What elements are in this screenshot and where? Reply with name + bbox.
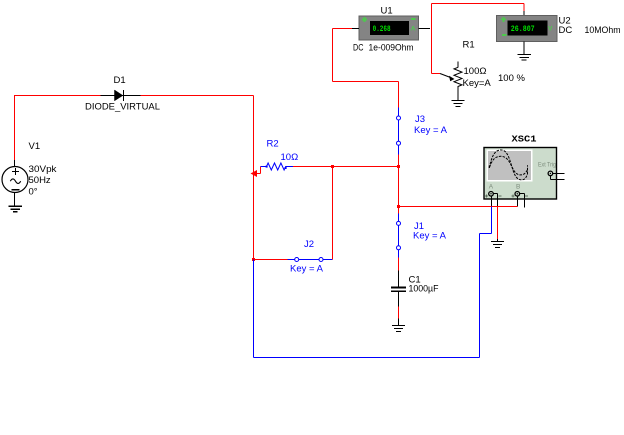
wire C1 to ground bbox=[398, 307, 400, 319]
wire scope A- down to ground bbox=[497, 207, 499, 240]
ground for V1 bbox=[9, 193, 23, 212]
R2 value label bbox=[281, 152, 299, 163]
V1 label bbox=[29, 141, 41, 152]
svg-text:1000µF: 1000µF bbox=[409, 284, 439, 295]
wire U1 right to top net and U2 bbox=[432, 4, 525, 29]
R1 value labels bbox=[463, 66, 526, 89]
svg-text:50Hz: 50Hz bbox=[29, 175, 51, 186]
wire scope A terminal hook to ground branch bbox=[493, 194, 498, 207]
svg-text:V: V bbox=[548, 25, 553, 32]
switch J1 bbox=[397, 214, 401, 258]
C1 label bbox=[409, 275, 421, 286]
potentiometer R1 bbox=[440, 62, 462, 101]
svg-text:D1: D1 bbox=[114, 75, 126, 86]
svg-text:B: B bbox=[516, 184, 520, 191]
D1 value label bbox=[85, 102, 160, 113]
multimeter U2 bbox=[497, 16, 558, 42]
wire middle column from R2 junction down to output junction bbox=[398, 167, 400, 215]
wire R2 left jog bbox=[254, 167, 261, 174]
U2 value label bbox=[559, 25, 621, 36]
svg-text:R1: R1 bbox=[463, 40, 475, 51]
J1 label bbox=[414, 221, 424, 232]
svg-text:Key = A: Key = A bbox=[414, 125, 448, 136]
ground for R1 bbox=[452, 101, 465, 107]
junction at output node bbox=[397, 205, 400, 208]
junction at J2 left / blue net bbox=[252, 258, 255, 261]
ground for scope bbox=[491, 239, 504, 248]
svg-text:0.268: 0.268 bbox=[373, 24, 391, 34]
wire U2 bottom pin to ground bbox=[523, 42, 525, 55]
svg-text:J2: J2 bbox=[304, 239, 314, 250]
C1 value label bbox=[409, 284, 439, 295]
wire Ext Trig stubs bbox=[551, 174, 565, 180]
J3 label bbox=[415, 114, 425, 125]
svg-text:Key = A: Key = A bbox=[290, 264, 324, 275]
J2 key label bbox=[290, 264, 324, 275]
capacitor C1 bbox=[391, 271, 406, 307]
J1 key label bbox=[413, 231, 447, 242]
U1 label bbox=[381, 6, 393, 17]
svg-text:A: A bbox=[411, 26, 416, 33]
svg-text:XSC1: XSC1 bbox=[512, 134, 537, 145]
resistor R2 bbox=[261, 163, 294, 170]
svg-text:10Ω: 10Ω bbox=[281, 152, 299, 163]
svg-text:0°: 0° bbox=[29, 187, 38, 198]
wire scope B terminal down stub bbox=[517, 196, 519, 207]
wire arrow at R2 tap on left column bbox=[251, 170, 258, 177]
wire blue net: scope A+ down, around to J2 junction bbox=[254, 207, 492, 358]
wire top horizontal net from V1 to right column bbox=[15, 95, 254, 97]
J3 key label bbox=[414, 125, 448, 136]
wire U2 top pin stub bbox=[523, 11, 525, 16]
diode D1 bbox=[101, 90, 141, 101]
wire J1 bottom to C1 bbox=[398, 258, 400, 271]
junction at middle column and R2 wire bbox=[397, 165, 400, 168]
U2 label bbox=[559, 16, 571, 27]
voltage source V1 bbox=[2, 167, 28, 193]
V1 value labels bbox=[29, 164, 57, 198]
J2 label bbox=[304, 239, 314, 250]
switch J2 bbox=[254, 258, 333, 262]
svg-text:J3: J3 bbox=[415, 114, 425, 125]
wire scope B terminal hook stub bbox=[520, 194, 525, 208]
svg-text:1e-009Ohm: 1e-009Ohm bbox=[369, 43, 414, 54]
XSC1 label bbox=[512, 134, 537, 145]
svg-text:A: A bbox=[489, 184, 494, 191]
U1 value label bbox=[353, 43, 414, 54]
wire from J2 right up to R2 net bbox=[332, 167, 334, 260]
wire left vertical from top wire down to V1 bbox=[14, 95, 16, 167]
svg-text:26.807: 26.807 bbox=[511, 24, 535, 34]
wire from U1 right node down to R1 wiper bbox=[432, 29, 441, 74]
svg-text:Key=A: Key=A bbox=[463, 78, 492, 89]
svg-text:U1: U1 bbox=[381, 6, 393, 17]
wire scope A terminal down stub bbox=[491, 196, 493, 207]
R2 label bbox=[267, 139, 279, 150]
svg-text:Ext Trig: Ext Trig bbox=[538, 163, 556, 169]
ground for U2 bbox=[518, 55, 532, 61]
wire output node to scope B input bbox=[399, 206, 518, 208]
ground for C1 bbox=[392, 319, 405, 332]
svg-text:DC: DC bbox=[559, 25, 573, 36]
junction at J2-branch and R2 wire bbox=[331, 165, 334, 168]
svg-text:100 %: 100 % bbox=[498, 73, 525, 84]
R1 label bbox=[463, 40, 475, 51]
wire J3 bottom to R2 junction bbox=[398, 155, 400, 167]
svg-text:R2: R2 bbox=[267, 139, 279, 150]
svg-text:V1: V1 bbox=[29, 141, 41, 152]
wire right column vertical (x=253.5) from top wire to J2 junction bbox=[253, 96, 255, 260]
multimeter U1 bbox=[352, 16, 430, 40]
svg-text:DC: DC bbox=[353, 43, 364, 54]
oscilloscope XSC1 bbox=[484, 148, 557, 200]
svg-text:30Vpk: 30Vpk bbox=[29, 164, 57, 175]
svg-text:Key = A: Key = A bbox=[413, 231, 447, 242]
svg-text:10MOhm: 10MOhm bbox=[585, 25, 621, 36]
D1 label bbox=[114, 75, 126, 86]
svg-text:100Ω: 100Ω bbox=[464, 66, 487, 77]
wire U1 left loop: from U1 + terminal down-left to J3 top bbox=[333, 29, 399, 108]
svg-text:DIODE_VIRTUAL: DIODE_VIRTUAL bbox=[85, 102, 160, 113]
wire from R2 right to middle column bbox=[293, 166, 399, 168]
switch J3 bbox=[397, 108, 401, 155]
